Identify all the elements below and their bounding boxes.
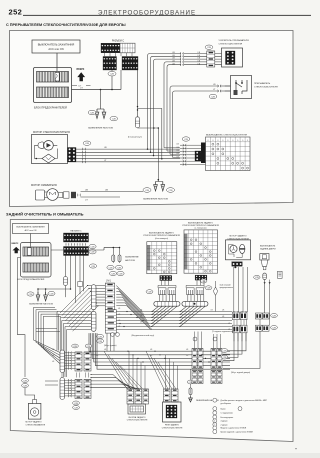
svg-text:(без люверса): (без люверса) [155,238,168,240]
wiper switch table [206,137,251,171]
cluster B top connector pair [186,285,204,287]
ovals on left drop wire [22,379,29,383]
upper diagram frame [10,31,294,207]
svg-text:для Европы: для Европы [221,403,232,405]
G1 pin pair rows [65,352,76,354]
amplifier connector pin column [207,51,215,67]
wire horizontal lower Y2 [138,127,159,129]
svg-text:L/В: L/В [104,349,106,351]
interrupter relay box [231,76,252,99]
svg-text:БЛОК ПРЕДОХРАНИТЕЛЕЙ: БЛОК ПРЕДОХРАНИТЕЛЕЙ [17,278,45,281]
wire to washer motor [25,388,35,400]
wire grid2 pin C down with dots [137,70,139,117]
svg-text:[ М ]: [ М ] [106,280,111,283]
circled refs near panel harness [111,333,115,337]
verticals from grid2 to second bus [106,333,108,351]
wires bus down to G4 [165,355,167,389]
svg-text:L/В: L/В [52,361,54,363]
legend symbol row 1 [213,398,217,402]
svg-text:ЗАДНЕЙ ДВЕРИ: ЗАДНЕЙ ДВЕРИ [260,247,276,250]
svg-text:РАЗЪЕМ С: РАЗЪЕМ С [70,229,82,232]
wires tables to cluster A B [161,281,163,286]
pins between rows [233,320,235,326]
svg-text:L/В: L/В [211,310,213,312]
svg-text:Для Австралии и модели с двига: Для Австралии и модели с двигателем KA24… [221,399,268,402]
verticals row2 to lower cluster [233,333,235,342]
svg-text:L/В: L/В [118,320,120,322]
rear washer motor M4 [28,403,41,419]
svg-text:НА КУЗОВ: НА КУЗОВ [125,259,135,262]
left nested feeder bends [34,308,61,353]
svg-text:L/В: L/В [172,61,174,63]
svg-text:L/В: L/В [150,349,152,351]
rear-right connector row 2 left pair [233,325,240,333]
up arrow lower [13,247,20,253]
connector below table 2 [195,275,207,280]
inline connector capsule on pin C wire [135,117,139,128]
ground body L1 [36,292,40,301]
svg-text:L/В: L/В [177,147,179,149]
svg-text:Кроме моделей с двигателем VG3: Кроме моделей с двигателем VG30E [221,430,254,433]
wire ignition to fuse block [56,53,58,71]
svg-text:L/В: L/В [140,310,142,312]
svg-text:L/Т: L/Т [104,160,106,162]
svg-text:L/В: L/В [52,355,54,357]
svg-text:L/В: L/В [186,349,188,351]
svg-text:L/В: L/В [198,55,200,57]
cluster B wires to capsule [187,295,189,302]
amplifier U1 box [222,48,243,67]
connector group G5c columns [192,371,197,384]
wire grid2 pin A down [111,70,113,71]
designator oval ground A left [88,110,96,114]
rear wiper motor M3 box [226,240,251,260]
wires bus down to G5 [194,332,196,349]
door capacitor component [278,271,283,278]
svg-text:10-й плавкий: 10-й плавкий [220,284,231,287]
ground cluster lower-left [38,288,71,290]
svg-text:L/В: L/В [177,153,179,155]
ignition switch S1 box [32,40,80,53]
connector group G3 pins [127,389,134,404]
svg-text:4 двери: 4 двери [221,421,228,423]
svg-text:МОТОР СТЕКЛООЧИСТИТЕЛЯ: МОТОР СТЕКЛООЧИСТИТЕЛЯ [33,131,70,134]
connector C grid row 2 left [103,57,117,71]
svg-text:ВВЕРХ: ВВЕРХ [77,69,85,71]
svg-text:ACC или ON: ACC или ON [48,47,63,51]
svg-text:L/В: L/В [198,63,200,65]
svg-text:L/В: L/В [213,84,215,86]
svg-text:(Жгут задней двери): (Жгут задней двери) [231,371,250,374]
connector group G2 column 1 [75,380,82,399]
connector C lower grid 2 [64,247,89,256]
svg-text:(Главный жгут): (Главный жгут) [128,135,142,138]
svg-text:МОТОР ОМЫВАТЕЛЯ: МОТОР ОМЫВАТЕЛЯ [31,184,57,187]
fuse F2 [119,248,121,254]
scan speck [295,448,297,449]
svg-text:С ПРЕРЫВАТЕЛЕМ СТЕКЛООЧИСТИТЕЛ: С ПРЕРЫВАТЕЛЕМ СТЕКЛООЧИСТИТЕЛЯ/VG30E ДЛ… [6,23,126,27]
ovals below G2 [73,401,80,405]
svg-text:L/В: L/В [140,316,142,318]
svg-text:ЗАЗЕМЛЕНИЕ НА КУЗОВ: ЗАЗЕМЛЕНИЕ НА КУЗОВ [29,303,54,306]
door connector row 1 [256,313,263,319]
svg-text:L/В: L/В [228,323,230,325]
svg-text:ПРЕРЫВАТЕЛЬ: ПРЕРЫВАТЕЛЬ [254,82,271,85]
second bus bundle with left up-bends [89,333,230,351]
svg-text:СТЕКЛООЧИСТИТЕЛЯ: СТЕКЛООЧИСТИТЕЛЯ [254,86,278,88]
connector group G5d columns [211,371,216,384]
middle pin block [195,151,204,161]
svg-text:L/Т: L/Т [213,89,215,91]
svg-text:ACC или ON: ACC или ON [25,229,37,232]
inline capsule on x65 wire [64,277,68,286]
inline box on x80 wire [79,256,81,282]
designator ovals below pin columns [96,334,103,338]
svg-text:ВВЕРХ: ВВЕРХ [12,243,19,245]
left horizontals pair [36,327,57,329]
connector group G1 column 1 [75,352,82,371]
svg-text:ЗАЗЕМЛЕНИЕ: ЗАЗЕМЛЕНИЕ [125,256,139,259]
legend symbol row 8 [213,430,217,434]
svg-text:(Внутрипанельный жгут): (Внутрипанельный жгут) [132,334,155,337]
junction dots on buses [126,311,127,312]
svg-text:L/В: L/В [172,63,174,65]
rear-right connector row 1 left pair [233,312,240,320]
connector group G2 capsule [60,378,65,400]
wire fuse output horizontal [72,89,122,91]
central pin column 1 [105,283,114,310]
wiper motor M1 box [32,135,68,164]
legend symbol row 5 [213,419,217,423]
designator oval L ground left [27,292,34,296]
ground body L2 [44,292,48,301]
interrupter wire pin pairs [218,85,221,88]
svg-text:L/В: L/В [177,156,179,158]
central pin column 2 [105,310,116,333]
pin ticks between connector C grids [104,53,106,56]
oval below table 2 [200,279,207,283]
svg-text:МОТОР ЗАДНЕГО: МОТОР ЗАДНЕГО [229,235,247,238]
interrupter connector pins [225,85,231,87]
svg-text:L/В: L/В [118,308,120,310]
connector group G4 pins [164,389,171,402]
ignition switch S2 box [13,224,49,234]
svg-text:СТЕКЛООЧИСТИТЕЛЯ: СТЕКЛООЧИСТИТЕЛЯ [127,420,148,422]
svg-text:L/В: L/В [118,326,120,328]
central capsule connector 1 [91,285,96,310]
connector C grid row 2 right [122,57,138,71]
wiper motor pin block [68,148,77,163]
wire stubs group2 to pair stack [164,148,180,158]
upper diagonal bundle into capsule 1 [60,286,91,314]
legend symbol row 3 [213,411,217,415]
designator oval C2B on pin A [108,71,116,76]
svg-text:ВЫКЛЮЧАТЕЛЬ ЗАДНЕГО: ВЫКЛЮЧАТЕЛЬ ЗАДНЕГО [149,231,174,234]
switch table 1 [147,242,177,274]
svg-text:L/В: L/В [172,55,174,57]
designator ovals cluster A B [146,290,153,294]
wire ignition2 down [30,234,32,247]
svg-text:L/В: L/В [52,349,54,351]
svg-text:L/В: L/В [172,52,174,54]
cluster A wires to capsule [159,295,161,302]
ovals on rear motor left wires [221,349,227,353]
lower diagram frame [10,220,293,442]
svg-text:2 двери: 2 двери [221,424,228,426]
connector group G5b columns [211,349,216,369]
ground body B1 [154,182,158,192]
rear door switch SW [260,254,269,270]
cluster B horizontal capsule [182,301,208,306]
cluster B pin fan to bus [180,306,187,311]
svg-text:L/В: L/В [222,310,224,312]
svg-text:L/В: L/В [140,322,142,324]
header rule [23,14,311,16]
svg-text:МОТОР ЗАДНЕГО: МОТОР ЗАДНЕГО [26,421,43,424]
svg-text:L/В: L/В [198,58,200,60]
svg-text:L/В: L/В [222,316,224,318]
wires motor to middle connector stack [103,148,180,150]
wire to ground cluster A [100,90,102,110]
motor connector pin pairs [76,148,103,150]
svg-text:ВЫКЛЮЧАТЕЛЬ ЗАЖИГАНИЯ: ВЫКЛЮЧАТЕЛЬ ЗАЖИГАНИЯ [38,43,75,47]
designator oval at motor connector [83,141,91,145]
svg-text:L/В: L/В [198,52,200,54]
svg-text:предохранитель: предохранитель [220,287,234,289]
svg-text:УСИЛИТЕЛЬ ПРЕРЫВАТЕЛЯ: УСИЛИТЕЛЬ ПРЕРЫВАТЕЛЯ [219,39,250,42]
wire oval to fuse line [111,76,113,89]
svg-text:ВЫКЛЮЧАТЕЛЬ ЗАЖИГАНИЯ: ВЫКЛЮЧАТЕЛЬ ЗАЖИГАНИЯ [16,226,45,229]
designator oval ground A right [110,116,118,120]
switch table 2 [184,230,218,273]
svg-text:4: 4 [214,421,215,423]
cluster A top connector pair [158,285,176,287]
washer motor wires [81,191,144,193]
svg-text:СТЕКЛООЧИСТИТЕЛЯ И ОМЫВАТЕЛЯ: СТЕКЛООЧИСТИТЕЛЯ И ОМЫВАТЕЛЯ [143,234,180,237]
svg-text:ВЫКЛЮЧАТЕЛЬ СТЕКЛООЧИСТИТЕЛЯ: ВЫКЛЮЧАТЕЛЬ СТЕКЛООЧИСТИТЕЛЯ [206,133,247,136]
svg-text:(с люверсом): (с люверсом) [195,227,207,229]
svg-text:СТЕКЛООЧИСТИТЕЛЯ: СТЕКЛООЧИСТИТЕЛЯ [162,427,183,429]
middle connector pair stack [180,144,206,146]
G2 pin pair rows [65,379,76,381]
svg-text:L/В: L/В [150,355,152,357]
vertical bus wires group 2 with rounded turns [161,108,163,158]
door switch wire bend left [223,331,260,368]
designator ovals below fuses [107,265,114,269]
connector group G5a columns [192,349,197,369]
svg-text:РЕЛЕ ЗАДНЕГО: РЕЛЕ ЗАДНЕГО [165,424,180,427]
wire fuse to F bus [51,249,104,251]
central capsule connector 2 [91,311,96,331]
designator oval L ground right [48,291,55,295]
connector below table 1 [160,276,172,281]
designator oval door wire [254,275,260,279]
svg-text:L/В: L/В [177,144,179,146]
svg-text:Модели с двигателем VG30E: Модели с двигателем VG30E [221,428,247,430]
wires rear motor down [233,267,235,312]
designator circles above G5 [193,337,197,341]
vertical bus wires group 1 with rounded turns [148,54,182,150]
wire door rows link [259,319,261,325]
wires G1 to G2 [61,373,63,378]
svg-text:(У заднего подлокотника): (У заднего подлокотника) [212,331,235,333]
washer motor connector [71,192,76,198]
connector C lower grid 1 [64,233,89,242]
cluster A pin fan to bus [152,306,159,311]
second bus diagonals to G3 [104,351,127,389]
rear wiper relay box [163,402,182,422]
legend symbol row 7 [213,426,217,430]
svg-text:L/В: L/В [118,314,120,316]
ground body B2 [161,182,165,192]
designator oval ground B left [143,188,151,193]
designator ovals above G1 [72,344,79,348]
svg-text:ЗАЗЕМЛЕНИЕ НА КУЗОВ: ЗАЗЕМЛЕНИЕ НА КУЗОВ [88,126,114,129]
wires amp pin pairs to box [180,52,183,55]
fuse block lower [21,243,52,278]
svg-text:252: 252 [9,8,23,17]
svg-text:L/В: L/В [198,61,200,63]
pin row between grids [65,243,67,245]
wire grid2 pin B down [120,70,122,90]
lower bus bundle with left bends to G1 G2 [57,311,91,313]
wires capsule1 to grid1 [96,285,105,287]
ground body A1 [95,109,99,119]
wire left edge long [18,258,26,378]
legend symbol row 6 [213,423,217,427]
designator oval near interrupter wires [209,94,217,98]
fuse block [34,68,72,103]
designator oval middle stack [182,137,190,141]
svg-text:С подогревом: С подогревом [221,413,234,415]
svg-text:ЭЛЕКТРООБОРУДОВАНИЕ: ЭЛЕКТРООБОРУДОВАНИЕ [98,9,196,16]
third bundle G2 to G3 [91,374,113,376]
connector group G1 column 2 [84,352,91,371]
legend symbol row 2 [213,407,217,411]
short left stubs near washer wire [45,380,58,382]
svg-text:L/В: L/В [228,329,230,331]
wire ground feed B vertical [157,128,159,180]
rear washer switch box [128,404,146,414]
designator oval amplifier [205,45,213,49]
connector group G2 column 2 [84,380,91,399]
designator oval door row 2 [271,326,278,330]
legend symbol row 4 [213,415,217,419]
svg-text:СТЕКЛООМЫВАТЕЛЯ: СТЕКЛООМЫВАТЕЛЯ [26,423,46,426]
svg-text:РАЗЪЕМ С: РАЗЪЕМ С [112,40,125,43]
wires bus down to G3 [128,351,130,389]
ground body right [189,396,193,402]
door switch connector capsule [263,273,267,280]
svg-text:ВЫКЛЮЧАТЕЛЬ: ВЫКЛЮЧАТЕЛЬ [260,244,276,247]
rear motor wires bend left [223,333,246,351]
fuse near relay [190,369,192,380]
svg-text:L/В: L/В [186,355,188,357]
designator oval ground B right [167,188,175,193]
svg-text:Кузов: Кузов [221,408,226,410]
connector group G1 capsule [60,350,65,373]
svg-text:L/В: L/В [177,150,179,152]
wire horizontal upper Y1 [138,107,162,109]
svg-text:ВЫКЛЮЧАТЕЛЬ ЗАДНЕГО: ВЫКЛЮЧАТЕЛЬ ЗАДНЕГО [188,221,213,224]
fusible link 10 [215,281,217,287]
door switch wires down [264,280,266,313]
svg-text:L/В: L/В [96,355,98,357]
door connector row 2 [256,325,263,331]
wires to interrupter [221,85,231,87]
grid1 fan down to bus [116,286,142,312]
svg-text:ЗАЗЕМЛЕНИЕ НА КУЗОВ: ЗАЗЕМЛЕНИЕ НА КУЗОВ [143,197,169,200]
cluster A horizontal capsule [154,301,180,306]
svg-text:Без подогрева: Без подогрева [221,417,235,419]
fuse F1 [112,248,114,254]
svg-text:L/В: L/В [172,58,174,60]
washer motor M2 [36,189,70,201]
svg-text:БЛОК ПРЕДОХРАНИТЕЛЕЙ: БЛОК ПРЕДОХРАНИТЕЛЕЙ [34,107,67,110]
verticals from connector C lower [65,256,67,277]
designator oval door row 1 [271,314,278,318]
designator ovals right of connector C [89,244,96,248]
second bus diagonals to G4 [146,351,164,389]
svg-text:КНОПКА ЗАДНЕГО: КНОПКА ЗАДНЕГО [129,416,146,419]
svg-text:ЗАДНИЙ ОЧИСТИТЕЛЬ И ОМЫВАТЕЛЬ: ЗАДНИЙ ОЧИСТИТЕЛЬ И ОМЫВАТЕЛЬ [6,212,84,217]
svg-text:СТЕКЛООЧИСТИТЕЛЯ: СТЕКЛООЧИСТИТЕЛЯ [219,44,243,46]
connector C grid row 1 [101,43,120,53]
ground body A2 [102,109,106,119]
rear motor pin block [232,262,243,266]
